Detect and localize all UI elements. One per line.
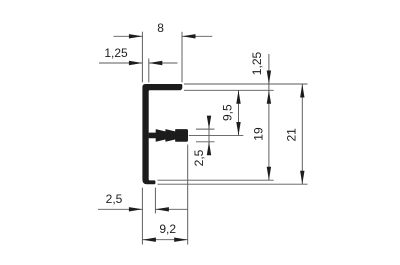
svg-text:1,25: 1,25 <box>250 51 264 75</box>
svg-text:9,2: 9,2 <box>159 222 176 236</box>
extension line barb right end (bottom) <box>187 145 189 245</box>
dimension line 1,25 left <box>99 62 142 64</box>
extension line wall inner edge <box>148 59 150 83</box>
extension line foot top edge <box>158 179 274 181</box>
dimension line 9,5 <box>238 90 240 135</box>
extension line flange bottom edge (right side) <box>184 89 274 91</box>
dimension line 21 <box>301 84 303 184</box>
svg-text:19: 19 <box>251 127 265 141</box>
arrowhead 2,5 barbs bottom (up) <box>207 142 211 156</box>
dimension line 2,5 barbs <box>208 118 210 154</box>
arrowhead 2,5 bottom dim, right arrow <box>155 207 169 211</box>
dimension line 2,5 bottom <box>98 208 142 210</box>
arrowhead 8 left <box>129 34 143 38</box>
dimension line 9,2 <box>142 239 187 241</box>
arrowhead 1,25 left dim, right arrow <box>149 61 163 65</box>
extension line left wall outer edge (top) <box>141 32 143 83</box>
extension line wall outer edge (bottom) <box>141 188 143 245</box>
arrowhead 2,5 barbs top (down) <box>207 116 211 130</box>
extension line foot bottom edge <box>158 183 308 185</box>
svg-text:2,5: 2,5 <box>106 192 123 206</box>
dimension line 8 <box>114 35 143 37</box>
arrowhead 19 bottom (down) <box>267 167 271 181</box>
svg-text:8: 8 <box>157 21 164 35</box>
arrowhead 9,2 right <box>174 238 188 242</box>
svg-text:9,5: 9,5 <box>220 104 234 121</box>
arrowhead 8 right <box>182 34 196 38</box>
dimension line 1,25 right / 19 (shared vertical) <box>268 54 270 180</box>
extension line flange right end (top) <box>181 32 183 83</box>
arrowhead 1,25 right dim (down) <box>267 71 271 85</box>
barbed anchoring leg with teeth <box>149 129 188 142</box>
arrowhead 21 top (up) <box>300 84 304 98</box>
arrowhead 9,5 bottom (down) <box>236 122 240 136</box>
arrowhead 19 top (up) <box>267 90 271 104</box>
extension line foot right end (bottom) <box>154 188 156 214</box>
arrowhead 2,5 bottom dim, left arrow <box>129 207 143 211</box>
svg-text:1,25: 1,25 <box>104 46 128 60</box>
extension line barb centerline <box>189 134 244 136</box>
arrowhead 1,25 left dim, left arrow <box>129 61 143 65</box>
arrowhead 9,5 top (up) <box>236 90 240 104</box>
svg-text:21: 21 <box>285 128 299 142</box>
extension line flange top edge (right side) <box>184 83 308 85</box>
arrowhead 21 bottom (down) <box>300 171 304 185</box>
svg-text:2,5: 2,5 <box>192 149 206 166</box>
arrowhead 9,2 left <box>142 238 156 242</box>
profile body (C-shaped aluminium edge profile) <box>142 84 182 184</box>
extension line barb bottom edge <box>196 141 215 143</box>
extension line barb top edge <box>196 128 215 130</box>
